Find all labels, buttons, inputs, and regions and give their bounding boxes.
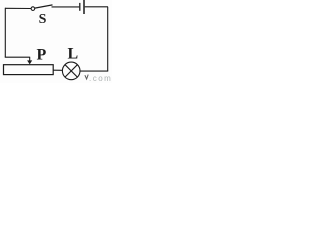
wire rheostat tap vertical — [29, 57, 31, 61]
watermark check mark — [85, 75, 88, 79]
svg-text:P: P — [37, 47, 47, 64]
wire rheostat jog horizontal — [5, 56, 30, 58]
svg-text:S: S — [39, 12, 47, 27]
battery long plate (positive) — [83, 0, 85, 14]
wire bottom-right horizontal — [80, 70, 108, 72]
wire top-left horizontal — [5, 7, 31, 9]
wire left vertical — [4, 8, 6, 58]
rheostat arrow head — [27, 60, 32, 64]
rheostat P box — [4, 65, 54, 75]
battery short plate (negative) — [79, 3, 81, 11]
lamp L circle — [62, 62, 80, 80]
wire right vertical — [107, 7, 109, 71]
switch S circle contact — [31, 7, 35, 11]
wire switch to battery — [52, 6, 80, 8]
lamp L cross line 2 — [65, 65, 77, 77]
lamp L cross line 1 — [65, 65, 77, 77]
switch S arm — [35, 5, 53, 8]
svg-text:.com: .com — [89, 74, 112, 83]
svg-text:L: L — [68, 46, 79, 63]
wire rheostat to lamp — [54, 69, 63, 71]
wire battery to top-right corner — [85, 6, 108, 8]
